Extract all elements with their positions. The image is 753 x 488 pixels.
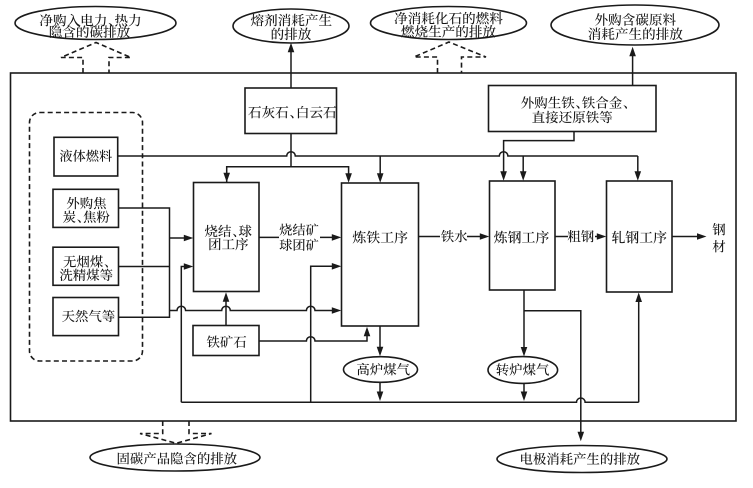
ellipse: net fossil fuel combustion emissions	[371, 7, 527, 40]
ellipse: converter gas	[488, 357, 558, 384]
label: sinter/pellet ore	[279, 223, 320, 252]
wire: electrode branch to bottom ellipse	[524, 311, 581, 434]
arrow from limestone box to flux ellipse	[290, 51, 292, 88]
label: steel products	[713, 223, 726, 235]
wire: gas header line (hops over electrode line)	[181, 398, 638, 402]
dashed hollow arrow up to fossil fuel ellipse	[414, 42, 486, 73]
wire: iron ore up into sintering bottom	[225, 300, 227, 326]
wire: steelmaking down to converter gas (with branch)	[523, 290, 525, 349]
box: steelmaking process	[490, 181, 556, 290]
ellipse: flux consumption emissions	[233, 9, 349, 43]
wire: limestone distribution line	[227, 167, 349, 182]
ellipse: carbon-sequestering product emissions	[90, 444, 260, 471]
ellipse: blast furnace gas	[344, 357, 418, 383]
wire: collector arrow into sintering left	[170, 237, 186, 239]
dashed fuels container box	[30, 113, 143, 362]
wire: gas header up into rolling bottom	[638, 300, 640, 402]
wire: branch down into steelmaking top	[522, 156, 524, 173]
box: anthracite washed coal	[53, 247, 119, 285]
wire: molten iron arrow	[419, 236, 482, 238]
box: steel rolling process	[607, 181, 673, 292]
box: natural gas	[53, 298, 119, 336]
box: purchased pig iron, ferroalloy, DRI	[489, 86, 657, 132]
wire: branch down into ironmaking top	[379, 156, 381, 175]
box: liquid fuel	[54, 137, 118, 176]
wire: corner down into rolling top	[637, 156, 639, 173]
wire: recycled gas riser to sintering	[181, 267, 185, 403]
dashed hollow arrow up to electricity ellipse	[61, 43, 131, 74]
wire: crude steel arrow	[555, 236, 598, 238]
wire: limestone box bottom to distribution line	[290, 134, 292, 167]
box: sintering pelletizing process	[194, 183, 260, 292]
ellipse: electrode consumption emissions	[497, 446, 667, 473]
ellipse: net purchased electricity/heat emissions	[15, 7, 176, 40]
label: molten iron	[440, 230, 467, 243]
wire: ironmaking down to BF gas ellipse	[379, 326, 381, 349]
box: iron ore	[193, 326, 259, 356]
wire: liquid fuel distribution line (hops over verticals)	[118, 152, 638, 156]
wire: BF gas down to gas header	[379, 382, 381, 393]
ellipse: purchased carbon-bearing raw material emissions	[551, 5, 719, 45]
box: ironmaking process	[342, 183, 419, 326]
wire: finished steel output arrow	[672, 236, 698, 238]
wire: converter gas down to gas header	[523, 383, 525, 394]
wire: sinter to ironmaking arrow	[259, 236, 333, 238]
label: crude steel	[568, 230, 595, 243]
wire: coke collector vertical with branches	[119, 208, 170, 317]
dashed hollow arrow down to sequestered ellipse	[140, 421, 212, 443]
wire: long fuel line to ironmaking (hops)	[170, 306, 334, 310]
wire: purchased pig iron to steelmaking	[504, 132, 574, 174]
wire: anthracite line joins collector	[119, 266, 170, 268]
main system boundary box	[11, 73, 737, 421]
box: limestone dolomite	[245, 88, 337, 134]
box: purchased coke	[53, 189, 119, 227]
wire: recycled gas riser to ironmaking left	[311, 266, 333, 402]
arrow from purchased pig iron box to raw material ellipse	[632, 55, 634, 86]
wire: iron ore to ironmaking under box (hop)	[259, 335, 367, 341]
